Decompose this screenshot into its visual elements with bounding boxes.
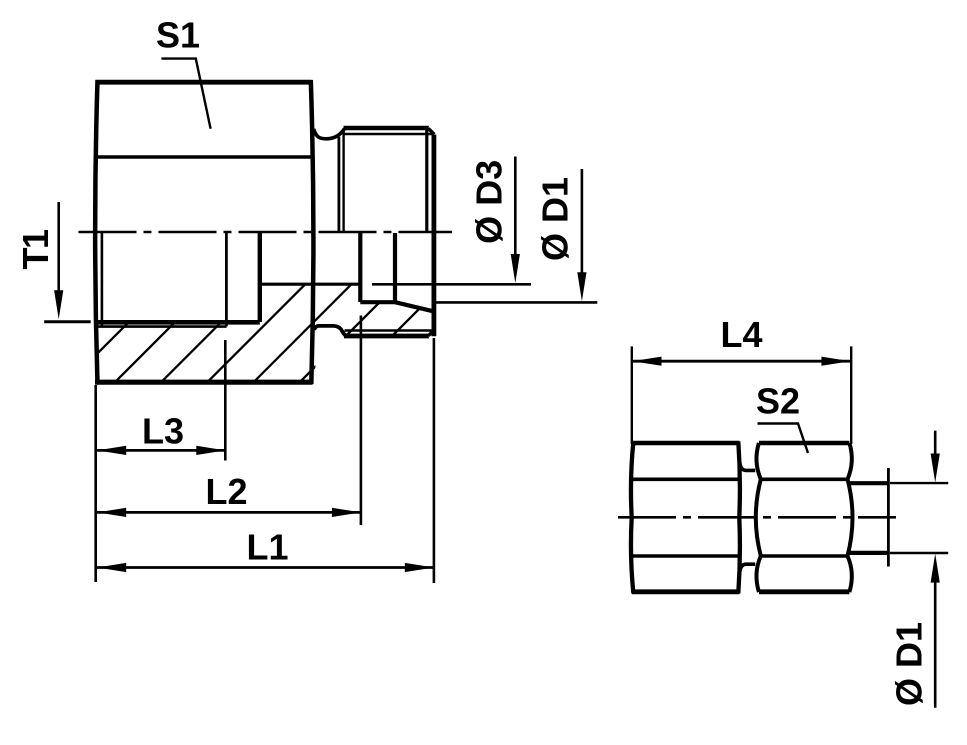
svg-text:Ø D3: Ø D3 (469, 160, 510, 244)
svg-text:L2: L2 (205, 471, 247, 512)
svg-text:T1: T1 (15, 229, 56, 269)
svg-text:Ø D1: Ø D1 (889, 622, 930, 706)
svg-text:S1: S1 (156, 15, 200, 56)
svg-text:L1: L1 (246, 527, 288, 568)
svg-text:L3: L3 (142, 410, 184, 451)
svg-text:L4: L4 (720, 314, 762, 355)
svg-text:Ø D1: Ø D1 (535, 177, 576, 261)
svg-text:S2: S2 (756, 380, 800, 421)
